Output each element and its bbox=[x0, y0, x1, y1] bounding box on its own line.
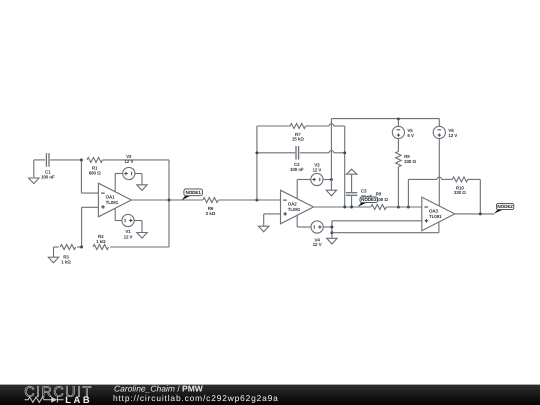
wire V5 to R8 bbox=[397, 138, 399, 151]
wire OA2 Vminus stem bbox=[296, 215, 298, 227]
wire feedback right vertical bbox=[344, 126, 346, 207]
ground V4 net bbox=[327, 238, 337, 244]
wire R8 to inv input bbox=[397, 167, 399, 207]
capacitor C3 bbox=[346, 192, 357, 194]
node junction V4 bbox=[330, 226, 333, 229]
wire V2 to ground bbox=[135, 173, 142, 175]
wire OA3 Vminus bus bbox=[332, 232, 439, 234]
op-amp OA2 bbox=[281, 190, 314, 224]
wire R7 net right with hop bbox=[306, 125, 330, 127]
wire top C1-R1 net bbox=[34, 159, 45, 161]
svg-text:330 Ω: 330 Ω bbox=[404, 159, 416, 164]
wire OA2 Vplus stem bbox=[296, 180, 298, 199]
svg-text:100 nF: 100 nF bbox=[41, 174, 55, 179]
svg-text:2 kΩ: 2 kΩ bbox=[206, 211, 216, 216]
wire ground rail vertical bbox=[330, 119, 332, 191]
capacitor C1 bbox=[45, 153, 47, 167]
wire R10 net with hop bbox=[408, 178, 437, 180]
node junction feedback left vert bbox=[255, 199, 258, 202]
ground R3 bbox=[53, 247, 55, 257]
wire R7 net left bbox=[257, 125, 291, 127]
ground V3 bbox=[326, 190, 336, 196]
svg-text:TL081: TL081 bbox=[288, 207, 301, 212]
voltage source V3 bbox=[311, 173, 323, 185]
svg-text:12 V: 12 V bbox=[124, 234, 133, 239]
wire feedback left vertical bbox=[256, 126, 258, 200]
node NODE2 flag bbox=[494, 210, 503, 214]
svg-text:12 V: 12 V bbox=[448, 133, 457, 138]
svg-text:NODE3: NODE3 bbox=[361, 197, 377, 202]
node junction V3 ground bbox=[330, 178, 333, 181]
svg-text:OA3: OA3 bbox=[429, 208, 439, 213]
svg-text:NODE2: NODE2 bbox=[497, 204, 513, 209]
resistor R10 bbox=[452, 177, 467, 182]
wire R6 to OA2 bbox=[218, 199, 280, 201]
wire R10 right vertical bbox=[468, 178, 481, 180]
voltage source V2 bbox=[123, 167, 135, 179]
voltage source V6 bbox=[433, 126, 445, 138]
svg-text:http://circuitlab.com/c292wp62: http://circuitlab.com/c292wp62g2a9a bbox=[113, 393, 279, 403]
wire V1 to ground bbox=[134, 220, 142, 222]
svg-text:R9: R9 bbox=[376, 191, 382, 196]
svg-text:12 V: 12 V bbox=[312, 167, 321, 172]
node junction R10 left vert bbox=[407, 206, 410, 209]
ground OA2 noninv bbox=[259, 226, 269, 232]
node NODE1 flag bbox=[182, 196, 191, 201]
resistor R9 bbox=[371, 205, 386, 210]
svg-text:LAB: LAB bbox=[65, 394, 92, 405]
wire V5 top stem bbox=[397, 119, 399, 127]
wire OA2 noninv input bbox=[264, 213, 281, 215]
op-amp OA1 bbox=[98, 183, 131, 217]
svg-text:NODE1: NODE1 bbox=[185, 190, 201, 195]
wire feedback right vertical bbox=[168, 160, 170, 247]
node junction R3/R2 bbox=[80, 246, 83, 249]
voltage source V1 bbox=[122, 214, 134, 226]
wire R10 left vertical bbox=[407, 179, 409, 207]
svg-text:12 V: 12 V bbox=[313, 242, 322, 247]
node junction C3 bbox=[350, 206, 353, 209]
svg-text:C3: C3 bbox=[361, 188, 367, 193]
wire OA3 output bbox=[455, 213, 494, 215]
wire noninverting input OA1 bbox=[81, 207, 83, 247]
node junction C1/R1 bbox=[80, 158, 83, 161]
node junction C2/R7 right bbox=[343, 151, 346, 154]
resistor R7 bbox=[290, 124, 305, 129]
ground V2 bbox=[137, 185, 147, 191]
wire bottom R3-R2 net bbox=[54, 246, 59, 248]
wire V3 to ground rail bbox=[323, 179, 332, 181]
node junction V5 top bbox=[397, 117, 400, 120]
svg-text:1 kΩ: 1 kΩ bbox=[61, 260, 71, 265]
svg-text:OA1: OA1 bbox=[106, 194, 116, 199]
wire OA2 output row bbox=[314, 206, 371, 208]
wire OA1 Vplus stem bbox=[114, 174, 116, 192]
svg-text:1 kΩ: 1 kΩ bbox=[96, 239, 106, 244]
op-amp OA3 bbox=[422, 197, 455, 231]
wire OA1 Vminus stem bbox=[114, 208, 116, 220]
voltage source V4 bbox=[311, 221, 323, 233]
svg-text:6 V: 6 V bbox=[407, 133, 414, 138]
wire V6 top stem bbox=[438, 119, 440, 127]
svg-text:TL081: TL081 bbox=[429, 214, 442, 219]
resistor R2 bbox=[93, 245, 108, 250]
wire OA3 noninv bus bbox=[332, 220, 422, 222]
node junction C2 left bbox=[255, 151, 258, 154]
svg-text:15 kΩ: 15 kΩ bbox=[292, 137, 304, 142]
voltage source V5 bbox=[392, 126, 404, 138]
node NODE3 flag bbox=[358, 203, 367, 207]
resistor R6 bbox=[203, 198, 218, 203]
wire OA1 output bbox=[131, 199, 202, 201]
wire ground vertical V4 bbox=[331, 221, 333, 239]
resistor R8 bbox=[396, 151, 401, 166]
svg-text:680 Ω: 680 Ω bbox=[89, 171, 101, 176]
ground C1 bbox=[33, 160, 35, 178]
svg-text:330 Ω: 330 Ω bbox=[454, 190, 466, 195]
capacitor C2 bbox=[295, 146, 297, 160]
svg-text:100 nF: 100 nF bbox=[290, 167, 304, 172]
node junction Vminus bus bbox=[330, 231, 333, 234]
wire R1 to feedback corner bbox=[103, 159, 169, 161]
node junction feedback/output bbox=[168, 199, 171, 202]
wire top supply rail bbox=[331, 118, 439, 120]
capacitor C3 stem bottom bbox=[351, 196, 353, 207]
resistor R1 bbox=[87, 157, 102, 162]
wire C2 net right with hop bbox=[300, 152, 329, 154]
svg-text:OA2: OA2 bbox=[288, 201, 298, 206]
svg-text:12 V: 12 V bbox=[124, 159, 133, 164]
wire inverting input OA1 bbox=[80, 160, 82, 193]
wire V4 to ground vert bbox=[323, 226, 332, 228]
resistor R3 bbox=[60, 245, 75, 250]
svg-text:TL081: TL081 bbox=[106, 200, 119, 205]
node junction R10/output bbox=[479, 212, 482, 215]
ground V1 bbox=[137, 233, 147, 239]
ground C3 up bbox=[346, 169, 356, 174]
wire V6 to OA3 Vplus bbox=[438, 138, 440, 205]
node junction feedback/out bbox=[343, 206, 346, 209]
node junction R8 bottom bbox=[397, 206, 400, 209]
wire C2 net left bbox=[257, 152, 295, 154]
